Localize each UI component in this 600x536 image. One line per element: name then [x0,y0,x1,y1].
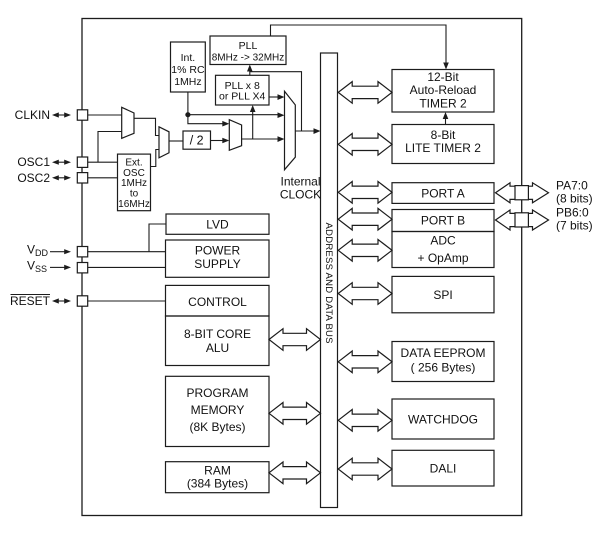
wire M3 output to M4 with arrow [242,136,285,142]
svg-text:ALU: ALU [206,341,229,355]
bidir bus arrow bus-EEPROM [338,351,392,373]
box Int. 1% RC 1MHz oscillator [171,42,206,92]
box PLL 8MHz -> 32MHz [210,36,286,65]
wire branch up into PLLx8 bottom with arrow [250,105,256,139]
svg-text:Auto-Reload: Auto-Reload [410,83,477,97]
bidir bus arrow RAM-bus [269,462,321,484]
svg-text:POWER: POWER [195,244,241,258]
wire PLLx8 output to M4 with arrow [269,94,285,100]
wire junction to M4 input with arrow [188,112,285,118]
svg-text:Int.: Int. [181,52,196,64]
mux M3 (RC / div2 select) [229,120,241,151]
mux M4 (internal clock select) [285,91,296,169]
svg-text:PORT A: PORT A [421,187,465,201]
svg-text:/ 2: / 2 [190,134,204,148]
svg-text:8-BIT CORE: 8-BIT CORE [184,327,251,341]
svg-text:CLOCK: CLOCK [280,188,321,202]
svg-text:MEMORY: MEMORY [191,403,245,417]
bus (ADDRESS AND DATA BUS) [321,53,338,508]
svg-text:WATCHDOG: WATCHDOG [408,413,478,427]
wire divider to M3 with arrow [211,138,230,144]
svg-text:SUPPLY: SUPPLY [194,257,240,271]
wire OSC1 branch to M1 lower input [98,132,122,163]
svg-text:LVD: LVD [206,218,229,232]
box DATA EEPROM (256 Bytes) [392,342,494,382]
svg-text:+ OpAmp: + OpAmp [417,251,468,265]
pin OSC2 [17,171,87,185]
mux M2 (ext osc select) [159,127,169,158]
box Ext. OSC 1MHz to 16MHz [118,154,151,211]
box divider /2 [183,131,211,149]
box POWER SUPPLY [166,240,270,277]
box PROGRAM MEMORY (8K Bytes) [166,376,270,446]
box DALI [392,450,494,486]
wire Ext OSC output to M2 [151,150,160,167]
svg-text:ADC: ADC [430,233,456,247]
svg-text:LITE TIMER 2: LITE TIMER 2 [405,141,481,155]
wire M2 output to divider [169,140,183,142]
svg-text:PLL: PLL [239,40,258,52]
svg-text:8-Bit: 8-Bit [431,128,456,142]
bidir port arrow PB with pad [496,210,549,230]
svg-text:or PLL X4: or PLL X4 [219,91,265,103]
bidir bus arrow bus-ADC [338,240,392,262]
svg-text:1MHz: 1MHz [174,76,201,88]
wire VDD to POWER SUPPLY [88,251,166,253]
bidir port arrow PA with pad [496,183,549,203]
svg-text:PROGRAM: PROGRAM [186,386,248,400]
svg-text:RAM: RAM [204,464,231,478]
box LVD [166,214,269,234]
svg-text:TIMER 2: TIMER 2 [419,96,467,110]
svg-text:CLKIN: CLKIN [15,108,50,122]
wire M4 output to bus with arrow [295,128,320,134]
bidir bus arrow bus-SPI [338,283,392,305]
box PORT A [392,183,494,204]
label PB6:0 (7 bits) [556,206,593,233]
svg-text:V: V [27,242,35,256]
svg-text:OSC1: OSC1 [17,155,50,169]
pin VDD [27,242,88,258]
label Internal CLOCK [280,175,321,202]
svg-text:Internal: Internal [280,175,320,189]
svg-text:(7 bits): (7 bits) [556,219,593,233]
svg-text:OSC2: OSC2 [17,171,50,185]
svg-text:RESET: RESET [10,294,51,308]
bidir bus arrow bus-PORT B [338,208,392,230]
outer device border [82,19,522,516]
wire M1 output to M2 [134,118,159,135]
svg-text:( 256 Bytes): ( 256 Bytes) [411,360,476,374]
wire LVD to VDD line [149,224,166,252]
bidir bus arrow ALU-bus [269,329,321,351]
svg-text:ADDRESS AND DATA BUS: ADDRESS AND DATA BUS [323,223,334,344]
pin CLKIN [15,108,88,122]
bidir bus arrow bus-TIMER2 [338,82,392,104]
wire VSS to POWER SUPPLY [88,266,166,268]
svg-text:SS: SS [35,264,47,274]
box ADC + OpAmp [392,232,494,268]
svg-text:PA7:0: PA7:0 [556,179,588,193]
wire PLL feedback to clock output line [250,72,302,131]
pin OSC1 [17,155,87,169]
wire CLKIN to M1 [88,114,122,116]
box SPI [392,276,494,312]
box RAM (384 Bytes) [166,462,270,493]
svg-text:16MHz: 16MHz [118,199,150,210]
svg-text:(8 bits): (8 bits) [556,192,593,206]
svg-text:V: V [27,258,35,272]
node junction dot [185,112,190,117]
svg-text:DATA EEPROM: DATA EEPROM [401,346,486,360]
box 8-BIT CORE ALU [166,316,270,366]
svg-text:(384 Bytes): (384 Bytes) [187,477,248,491]
wire OSC2 to Ext OSC [88,177,118,179]
svg-text:DALI: DALI [430,462,457,476]
wire OSC1 to Ext OSC [88,161,118,163]
wire PLLx8 up to PLL with arrow [247,65,253,76]
mux M1 (CLKIN/OSC select) [122,107,134,138]
bidir bus arrow bus-LITE TIMER [338,134,392,156]
box 8-Bit LITE TIMER 2 [392,125,494,164]
svg-text:CONTROL: CONTROL [188,295,247,309]
svg-text:DD: DD [35,248,48,258]
svg-text:SPI: SPI [433,288,452,302]
svg-text:8MHz -> 32MHz: 8MHz -> 32MHz [212,53,285,64]
label PA7:0 (8 bits) [556,179,593,206]
wire LITE TIMER up to TIMER 2 with arrow [443,112,449,125]
box 12-Bit Auto-Reload TIMER 2 [392,70,494,113]
svg-text:1% RC: 1% RC [171,64,205,76]
box WATCHDOG [392,399,494,439]
box PLL x 8 or PLL X4 [216,75,270,105]
svg-text:PORT B: PORT B [421,213,465,227]
wire junction down to M3 upper input with arrow [188,115,229,127]
pin RESET [10,294,88,308]
box CONTROL [166,285,270,316]
svg-text:PB6:0: PB6:0 [556,206,589,220]
svg-text:(8K Bytes): (8K Bytes) [189,420,245,434]
svg-text:12-Bit: 12-Bit [427,70,459,84]
wire Int RC down to junction [187,92,189,115]
bidir bus arrow PROGRAM-bus [269,403,321,425]
bidir bus arrow bus-WATCHDOG [338,410,392,432]
wire PLL top to TIMER 2 with arrow [271,25,449,70]
box PORT B [392,210,494,232]
bidir bus arrow bus-PORT A [338,182,392,204]
wire RESET to CONTROL [88,300,166,302]
pin VSS [27,258,88,274]
bidir bus arrow bus-DALI [338,458,392,480]
